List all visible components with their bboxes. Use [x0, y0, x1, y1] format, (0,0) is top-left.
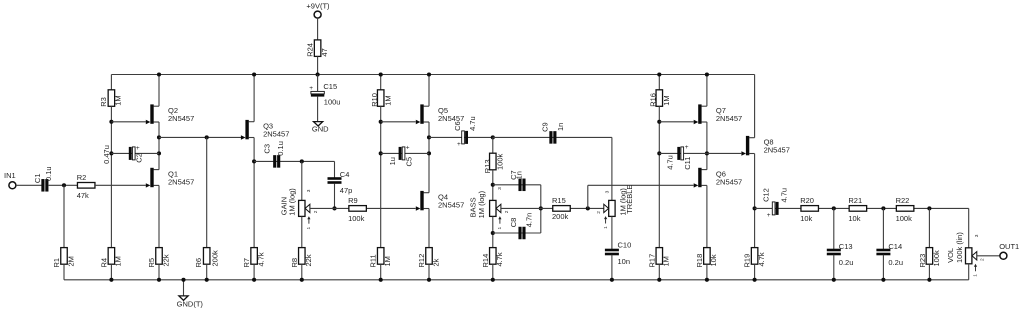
capacitor C15 100u: [309, 82, 340, 107]
resistor R8 22k: [290, 248, 313, 268]
capacitor C10 10n: [605, 240, 631, 266]
resistor R15 200k: [552, 196, 570, 221]
wire R23 top lead: [928, 208, 930, 247]
svg-text:+: +: [685, 144, 689, 151]
wire C9 to TREBLE top: [611, 137, 613, 200]
transistor Q8 2N5457: [741, 136, 789, 156]
svg-text:R16: R16: [648, 93, 657, 107]
junction ground rail junction: [705, 278, 709, 282]
svg-text:2N5457: 2N5457: [263, 130, 289, 139]
wire C11 bootstrap wire: [659, 152, 707, 154]
junction rail junction Q2 drain: [157, 72, 161, 76]
svg-text:C9: C9: [540, 122, 549, 132]
wire GAIN pot to R8: [301, 216, 303, 247]
wire C7 wire: [493, 184, 541, 186]
svg-text:200k: 200k: [552, 212, 569, 221]
svg-text:GND(T): GND(T): [177, 299, 204, 308]
wire rail to R3: [110, 75, 112, 90]
svg-text:47k: 47k: [77, 191, 89, 200]
junction Q2 gate node: [109, 120, 113, 124]
junction C4 R9 node: [332, 206, 336, 210]
svg-text:C5: C5: [404, 157, 413, 167]
wire R8 to ground rail: [301, 264, 303, 280]
resistor R24 47: [306, 40, 329, 57]
capacitor C11 4.7u: [665, 144, 692, 170]
svg-text:10n: 10n: [618, 257, 631, 266]
wire C2 bootstrap wire: [111, 152, 159, 154]
wire Q3 drain to rail: [253, 75, 255, 122]
junction tone node A: [491, 135, 495, 139]
wire R7 to ground rail: [253, 264, 255, 280]
junction C13 node: [832, 206, 836, 210]
svg-text:4.7u: 4.7u: [780, 188, 789, 203]
svg-text:4.7u: 4.7u: [665, 155, 674, 170]
transistor Q4 2N5457: [416, 191, 464, 211]
transistor Q6 2N5457: [694, 168, 742, 188]
junction C5 node right: [427, 151, 431, 155]
resistor R16 1M: [648, 90, 671, 107]
svg-text:C6: C6: [453, 121, 462, 131]
svg-text:2N5457: 2N5457: [168, 114, 194, 123]
wire Q5 gate wire: [381, 121, 416, 123]
wire C7 corner down to wiper node: [540, 185, 542, 233]
capacitor C13 0.2u: [827, 242, 854, 267]
capacitor C4 47p: [328, 170, 353, 195]
resistor R12 2k: [417, 248, 440, 268]
svg-text:+: +: [136, 145, 140, 152]
wire Q2 source to Q1 drain: [158, 122, 160, 170]
potentiometer TREBLE 1M (log): [596, 185, 634, 229]
svg-text:R3: R3: [99, 97, 108, 107]
wire R6 to ground rail: [206, 264, 208, 280]
wire C5 bootstrap wire: [381, 152, 429, 154]
wire GND(T) stub: [183, 280, 185, 296]
resistor R4 1M: [99, 248, 122, 268]
potentiometer GAIN 1M (log): [279, 188, 319, 230]
wire C15 to GND: [317, 97, 319, 122]
terminal input IN1: [4, 171, 16, 189]
wire GAIN wiper to Q4 gate: [310, 207, 415, 209]
svg-text:1M: 1M: [383, 256, 392, 266]
resistor R14 4.7k: [481, 248, 504, 268]
wire R5 to ground rail: [158, 264, 160, 280]
junction output node: [753, 206, 757, 210]
wire C6 wire: [429, 136, 493, 138]
junction input node: [62, 183, 66, 187]
svg-text:C13: C13: [839, 242, 853, 251]
svg-text:2M: 2M: [66, 256, 75, 266]
junction BASS wiper node: [539, 206, 543, 210]
svg-text:R23: R23: [918, 254, 927, 268]
junction R23 node: [927, 206, 931, 210]
wire Q6 source to R18: [706, 185, 708, 247]
wire BASS pot to R14: [492, 216, 494, 247]
wire R17 to ground rail: [658, 264, 660, 280]
svg-text:+: +: [406, 144, 410, 151]
svg-text:2: 2: [979, 258, 985, 261]
wire R10 to R11: [380, 106, 382, 247]
svg-text:1M: 1M: [662, 95, 671, 105]
wire R1 to ground rail: [63, 264, 65, 280]
wire VOL wiper to OUT1: [977, 255, 1000, 257]
svg-text:4.7k: 4.7k: [757, 252, 766, 266]
ground GND(T): [177, 296, 204, 308]
svg-text:0.2u: 0.2u: [839, 258, 854, 267]
svg-text:1: 1: [497, 227, 503, 230]
wire C13 to ground rail: [833, 255, 835, 280]
resistor R7 4.7k: [242, 248, 265, 268]
svg-text:R13: R13: [483, 159, 492, 173]
svg-text:100u: 100u: [324, 98, 341, 107]
junction C8 node: [491, 231, 495, 235]
junction TREBLE wiper node: [586, 206, 590, 210]
svg-text:IN1: IN1: [4, 171, 16, 180]
svg-text:200k: 200k: [210, 250, 219, 267]
capacitor C14 0.2u: [876, 242, 903, 267]
svg-text:100k: 100k: [495, 153, 504, 170]
junction rail junction Q3 drain: [252, 72, 256, 76]
wire wiper node up: [587, 185, 589, 208]
wire C3 wire: [254, 160, 334, 162]
wire R11 to ground rail: [380, 264, 382, 280]
svg-text:2N5457: 2N5457: [716, 178, 742, 187]
junction ground rail junction: [379, 278, 383, 282]
wire Q2 gate wire: [111, 121, 145, 123]
svg-text:R19: R19: [743, 254, 752, 268]
svg-text:1n: 1n: [556, 123, 565, 131]
junction ground rail junction: [491, 278, 495, 282]
junction tone node B: [491, 183, 495, 187]
terminal +9V(T) supply terminal: [306, 2, 330, 19]
potentiometer BASS 1M (log): [469, 187, 510, 230]
svg-text:R11: R11: [369, 254, 378, 267]
resistor R3 1M: [99, 90, 122, 107]
svg-text:4.7u: 4.7u: [468, 116, 477, 131]
wire C13 top lead: [833, 208, 835, 249]
junction C2 node right: [157, 151, 161, 155]
svg-text:4.7n: 4.7n: [524, 213, 533, 228]
svg-text:C12: C12: [762, 188, 771, 202]
svg-text:2k: 2k: [431, 258, 440, 266]
svg-text:47p: 47p: [340, 186, 353, 195]
svg-text:1M (log): 1M (log): [287, 188, 296, 216]
svg-text:C4: C4: [340, 170, 350, 179]
junction ground rail junction: [881, 278, 885, 282]
svg-text:1u: 1u: [388, 157, 397, 165]
svg-text:100k (lin): 100k (lin): [955, 232, 964, 263]
svg-text:R8: R8: [290, 258, 299, 268]
resistor R6 200k: [194, 248, 220, 268]
wire Q7 source to Q6 drain: [706, 122, 708, 170]
junction ground rail junction: [252, 278, 256, 282]
wire C1 to R2: [49, 184, 78, 186]
wire VOL pot to ground rail: [968, 264, 970, 280]
junction ground rail junction: [927, 278, 931, 282]
wire Q5 drain to rail: [428, 75, 430, 107]
resistor R2 47k: [77, 173, 95, 200]
wire wire corner to VOL pot: [968, 208, 970, 247]
wire C4 bottom lead: [334, 183, 336, 208]
svg-text:R2: R2: [77, 173, 87, 182]
resistor R1 2M: [52, 248, 75, 268]
wire node A to R13: [492, 137, 494, 153]
wire stage1 output to Q3 gate: [159, 136, 241, 138]
svg-text:10k: 10k: [709, 254, 718, 266]
wire output chain wire: [755, 207, 969, 209]
wire R12 to ground rail: [428, 264, 430, 280]
wire R16 to R17: [658, 106, 660, 247]
svg-text:2: 2: [313, 210, 319, 213]
junction ground rail junction: [610, 278, 614, 282]
svg-text:100k: 100k: [348, 214, 365, 223]
wire node to R6: [206, 137, 208, 247]
wire Q7 gate wire: [659, 121, 693, 123]
wire C8 wire: [493, 232, 541, 234]
svg-text:1M: 1M: [114, 256, 123, 266]
wire to Q6 gate: [588, 184, 694, 186]
wire Q3 source down: [253, 138, 255, 248]
svg-text:C3: C3: [263, 144, 272, 154]
svg-text:C10: C10: [618, 240, 632, 249]
wire R18 to ground rail: [706, 264, 708, 280]
resistor R9 100k: [348, 196, 366, 223]
svg-text:1M (log): 1M (log): [477, 190, 486, 218]
svg-text:C8: C8: [509, 218, 518, 228]
resistor R11 1M: [369, 248, 392, 268]
junction ground rail junction: [157, 278, 161, 282]
transistor Q7 2N5457: [694, 104, 742, 124]
capacitor C9 1n: [540, 122, 565, 143]
wire C10 to ground rail: [611, 255, 613, 280]
svg-text:1M: 1M: [113, 95, 122, 105]
wire Q1 source to R5: [158, 185, 160, 247]
capacitor C2 0.47u: [102, 145, 144, 164]
svg-text:R24: R24: [306, 43, 315, 57]
junction rail junction Q5 drain: [427, 72, 431, 76]
svg-text:1: 1: [603, 226, 609, 229]
junction rail junction supply: [316, 72, 320, 76]
junction GAIN pot top node: [300, 159, 304, 163]
svg-text:4.7k: 4.7k: [495, 252, 504, 266]
svg-text:3: 3: [605, 190, 611, 193]
wire Q5 source to Q4 drain: [428, 122, 430, 193]
svg-text:4.7k: 4.7k: [256, 252, 265, 266]
wire node A to C9: [493, 136, 612, 138]
svg-text:R5: R5: [147, 258, 156, 268]
junction ground rail junction: [181, 278, 185, 282]
svg-text:2: 2: [504, 210, 510, 213]
wire rail to R16: [658, 75, 660, 90]
svg-text:22k: 22k: [161, 254, 170, 266]
resistor R23 100k: [918, 248, 941, 268]
svg-text:3: 3: [497, 187, 503, 190]
wire top supply rail: [111, 74, 754, 76]
svg-text:+: +: [457, 141, 461, 148]
svg-text:+: +: [309, 85, 313, 92]
transistor Q2 2N5457: [146, 104, 194, 124]
svg-text:100k: 100k: [932, 250, 941, 267]
svg-text:R1: R1: [52, 258, 61, 268]
svg-text:+: +: [767, 212, 771, 219]
junction stage3 output node: [705, 151, 709, 155]
capacitor C6 4.7u: [453, 116, 477, 148]
svg-text:R18: R18: [695, 254, 704, 268]
svg-text:R9: R9: [348, 196, 358, 205]
resistor R13 100k: [483, 153, 504, 173]
wire Q8 drain to rail: [754, 75, 756, 138]
svg-text:R4: R4: [99, 258, 108, 268]
svg-text:1: 1: [306, 227, 312, 230]
svg-text:R15: R15: [552, 196, 566, 205]
svg-text:10k: 10k: [800, 214, 812, 223]
svg-text:1M: 1M: [384, 95, 393, 105]
svg-text:2: 2: [596, 211, 602, 214]
capacitor C5 1u: [388, 144, 413, 166]
wire TREBLE pot to C10: [611, 216, 613, 249]
capacitor C12 4.7u: [762, 188, 789, 219]
junction Q7 gate node: [657, 120, 661, 124]
junction ground rail junction: [753, 278, 757, 282]
junction rail junction R10: [379, 72, 383, 76]
svg-text:1n: 1n: [515, 171, 524, 179]
junction ground rail junction: [427, 278, 431, 282]
wire supply terminal to R24: [317, 18, 319, 40]
junction C14 node: [881, 206, 885, 210]
svg-text:1M: 1M: [662, 256, 671, 266]
wire Q2 drain to rail: [158, 75, 160, 107]
svg-text:1: 1: [972, 274, 978, 277]
svg-text:C2: C2: [135, 153, 144, 163]
resistor R18 10k: [695, 248, 718, 268]
wire node to GAIN pot: [301, 161, 303, 200]
ground GND: [312, 122, 329, 134]
svg-text:C15: C15: [323, 82, 337, 91]
svg-text:0.2u: 0.2u: [888, 258, 903, 267]
transistor Q1 2N5457: [146, 168, 194, 188]
svg-text:10k: 10k: [848, 214, 860, 223]
capacitor C3 0.1u: [263, 141, 286, 168]
svg-text:TREBLE: TREBLE: [625, 185, 634, 214]
wire C14 top lead: [882, 208, 884, 249]
junction ground rail junction: [657, 278, 661, 282]
wire R24 to top rail: [317, 56, 319, 74]
svg-text:R6: R6: [194, 258, 203, 268]
wire input node to R1: [63, 185, 65, 247]
svg-text:2N5457: 2N5457: [716, 114, 742, 123]
wire R13 to node B: [492, 170, 494, 201]
svg-text:2N5457: 2N5457: [438, 201, 464, 210]
svg-text:3: 3: [974, 234, 980, 237]
wire R14 to ground rail: [492, 264, 494, 280]
wire ground rail: [64, 279, 969, 281]
junction C6 tap node: [427, 135, 431, 139]
transistor Q3 2N5457: [241, 120, 289, 140]
capacitor C7 1n: [509, 170, 525, 191]
svg-text:C11: C11: [683, 157, 692, 170]
svg-text:R10: R10: [370, 93, 379, 107]
junction ground rail junction: [109, 278, 113, 282]
wire stage3 output to Q8 gate: [707, 152, 741, 154]
svg-text:22k: 22k: [304, 254, 313, 266]
resistor R22 100k: [896, 196, 914, 223]
wire R19 to ground rail: [754, 264, 756, 280]
svg-text:0.47u: 0.47u: [102, 145, 111, 164]
svg-text:2N5457: 2N5457: [168, 178, 194, 187]
junction rail junction R16: [657, 72, 661, 76]
svg-text:R14: R14: [481, 254, 490, 268]
svg-text:GND: GND: [312, 124, 329, 133]
svg-text:+9V(T): +9V(T): [306, 2, 330, 11]
potentiometer VOL 100k (lin): [946, 232, 985, 277]
svg-text:R17: R17: [647, 254, 656, 268]
junction C2 node left: [109, 151, 113, 155]
junction stage1 output node: [157, 135, 161, 139]
svg-text:R12: R12: [417, 254, 426, 268]
svg-text:3: 3: [306, 189, 312, 192]
svg-text:C1: C1: [33, 174, 42, 184]
wire Q7 drain to rail: [706, 75, 708, 107]
junction ground rail junction: [300, 278, 304, 282]
junction ground rail junction: [832, 278, 836, 282]
svg-text:0.1u: 0.1u: [44, 166, 53, 181]
junction ground rail junction: [205, 278, 209, 282]
svg-text:100k: 100k: [896, 214, 913, 223]
wire IN1 to C1: [16, 184, 42, 186]
svg-text:R21: R21: [848, 196, 862, 205]
svg-text:C14: C14: [888, 242, 902, 251]
wire R4 to ground rail: [110, 264, 112, 280]
wire C4 top lead: [334, 161, 336, 177]
wire R23 to ground rail: [928, 264, 930, 280]
svg-text:R7: R7: [242, 258, 251, 268]
svg-text:47: 47: [320, 48, 329, 56]
svg-text:R20: R20: [800, 196, 814, 205]
wire Q4 source to R12: [428, 209, 430, 248]
svg-text:R22: R22: [896, 196, 910, 205]
wire C14 to ground rail: [882, 255, 884, 280]
junction C5 node left: [379, 151, 383, 155]
resistor R5 22k: [147, 248, 170, 268]
capacitor C1 0.1u: [33, 166, 53, 191]
svg-text:2N5457: 2N5457: [764, 146, 790, 155]
resistor R17 1M: [647, 248, 670, 268]
resistor R21 10k: [848, 196, 866, 223]
junction C3 node: [252, 159, 256, 163]
junction Q5 gate node: [379, 120, 383, 124]
svg-text:0.1u: 0.1u: [276, 141, 285, 156]
capacitor C8 4.7n: [509, 213, 534, 240]
wire R2 to Q1 gate: [95, 184, 146, 186]
svg-text:VOL: VOL: [946, 248, 955, 263]
wire BASS wiper to TREBLE wiper: [501, 207, 604, 209]
resistor R10 1M: [370, 90, 393, 107]
junction C11 node left: [657, 151, 661, 155]
wire rail to C15: [317, 75, 319, 92]
junction rail junction Q7 drain: [705, 72, 709, 76]
resistor R19 4.7k: [743, 248, 766, 268]
terminal output OUT1: [999, 242, 1019, 259]
resistor R20 10k: [800, 196, 818, 223]
svg-text:OUT1: OUT1: [999, 242, 1019, 251]
wire R3 to C2 node: [110, 106, 112, 247]
junction R6 branch node: [205, 135, 209, 139]
wire Q8 source down to R19: [754, 154, 756, 248]
wire rail to R10: [380, 75, 382, 90]
transistor Q5 2N5457: [416, 104, 464, 124]
